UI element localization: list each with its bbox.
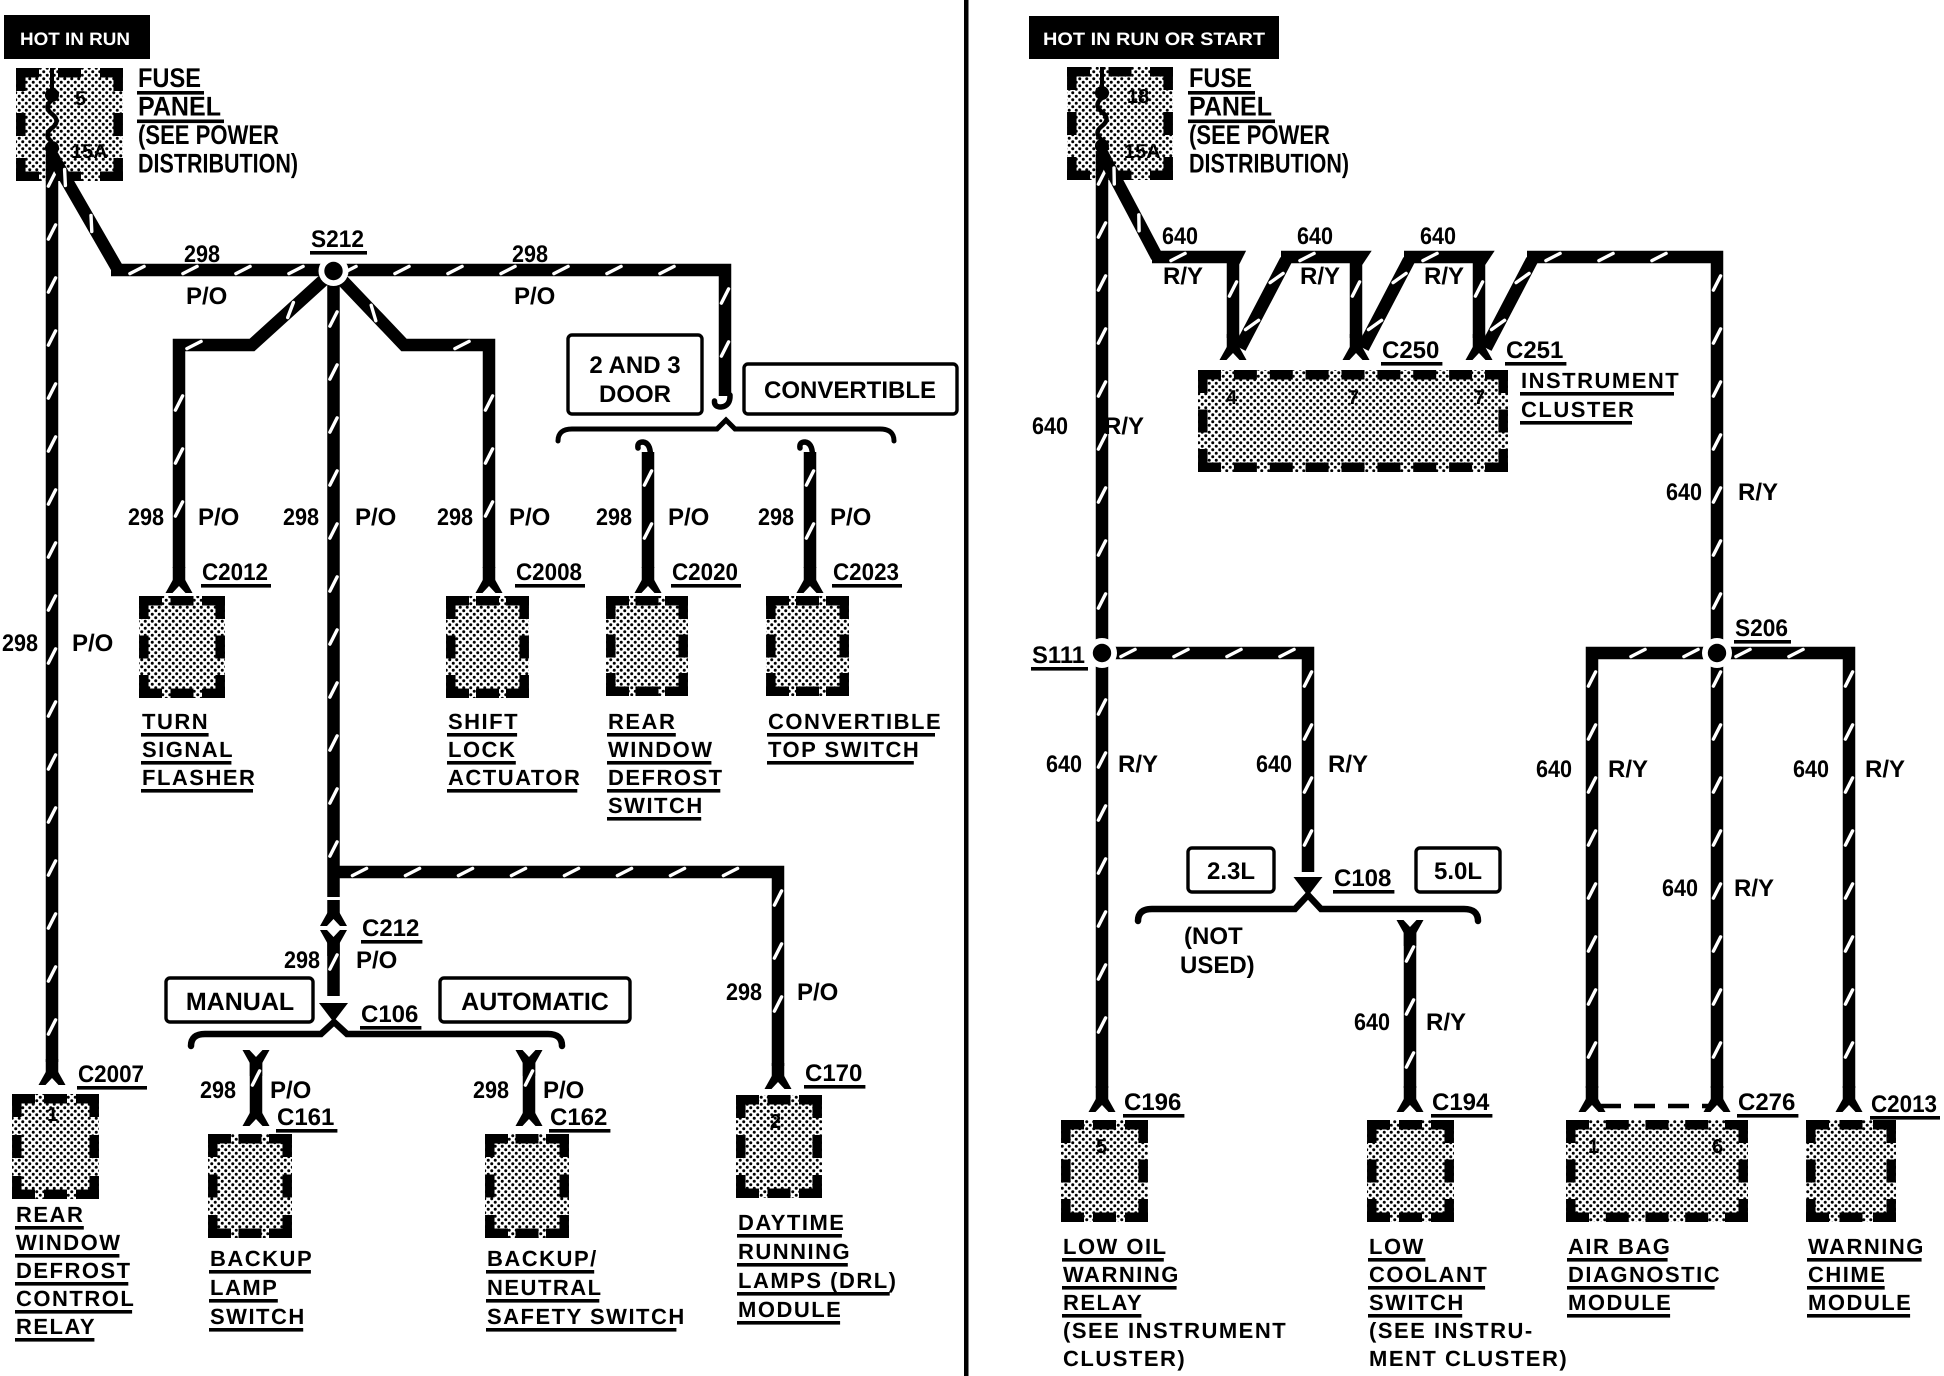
svg-text:640: 640 — [1793, 756, 1829, 783]
svg-text:15A: 15A — [1124, 141, 1161, 163]
fuse 5 15A symbol (left fuse panel) — [50, 68, 54, 90]
option box 2 AND 3 DOOR — [568, 335, 702, 414]
wire: fuse panel diagonal to horizontal 298 feed — [52, 155, 117, 268]
svg-text:R/Y: R/Y — [1426, 1009, 1466, 1036]
svg-text:R/Y: R/Y — [1424, 263, 1464, 290]
svg-text:R/Y: R/Y — [1738, 479, 1778, 506]
svg-text:R/Y: R/Y — [1328, 751, 1368, 778]
svg-text:MENT CLUSTER): MENT CLUSTER) — [1369, 1346, 1568, 1371]
svg-text:SWITCH: SWITCH — [1369, 1290, 1465, 1315]
svg-text:640: 640 — [1046, 751, 1082, 778]
svg-text:SHIFT: SHIFT — [448, 709, 519, 734]
connector C2007 — [46, 1059, 59, 1078]
wire: S212 branch to turn signal flasher C2012 — [179, 271, 334, 568]
svg-text:640: 640 — [1666, 479, 1702, 506]
svg-text:P/O: P/O — [356, 947, 397, 974]
svg-text:P/O: P/O — [186, 283, 227, 310]
connector C196 — [1096, 1086, 1109, 1105]
svg-text:640: 640 — [1662, 875, 1698, 902]
wire: fuse panel to rear window defrost control relay (298 P/O vertical) — [46, 153, 59, 1062]
svg-text:640: 640 — [1536, 756, 1572, 783]
svg-text:WINDOW: WINDOW — [608, 737, 714, 762]
wire: zigzag horizontal 2 to C250 pin 7 — [1281, 257, 1360, 338]
connector C2012 — [173, 567, 186, 586]
svg-text:P/O: P/O — [668, 504, 709, 531]
svg-text:R/Y: R/Y — [1300, 263, 1340, 290]
connector C2023 — [804, 567, 817, 586]
svg-text:P/O: P/O — [198, 504, 239, 531]
svg-text:PANEL: PANEL — [138, 92, 221, 122]
svg-text:P/O: P/O — [514, 283, 555, 310]
wire: right fuse panel vertical 640 R/Y down to C196 — [1096, 151, 1109, 1088]
svg-text:SWITCH: SWITCH — [608, 793, 704, 818]
svg-text:C276: C276 — [1738, 1089, 1795, 1116]
svg-text:TURN: TURN — [142, 709, 209, 734]
svg-text:640: 640 — [1420, 223, 1456, 250]
svg-text:CONVERTIBLE: CONVERTIBLE — [768, 709, 942, 734]
low coolant switch box — [1367, 1120, 1454, 1222]
svg-text:RUNNING: RUNNING — [738, 1239, 851, 1264]
backup/neutral safety switch box — [485, 1134, 569, 1238]
svg-text:298: 298 — [2, 630, 38, 657]
svg-text:C2023: C2023 — [833, 559, 899, 586]
connector C108 arrow — [1294, 877, 1323, 896]
dashed link between air bag connector forks — [1600, 1104, 1710, 1109]
svg-text:S212: S212 — [311, 226, 364, 253]
svg-text:C2012: C2012 — [202, 559, 268, 586]
svg-text:640: 640 — [1256, 751, 1292, 778]
svg-text:15A: 15A — [71, 141, 108, 163]
connector C170 — [772, 1063, 785, 1082]
svg-text:CONTROL: CONTROL — [16, 1286, 135, 1311]
svg-text:1: 1 — [47, 1104, 58, 1126]
svg-text:18: 18 — [1127, 86, 1149, 108]
svg-text:640: 640 — [1354, 1009, 1390, 1036]
svg-text:C196: C196 — [1124, 1089, 1181, 1116]
wire: S212 branch to shift lock actuator C2008 — [334, 271, 490, 568]
svg-text:298: 298 — [512, 241, 548, 268]
svg-text:MANUAL: MANUAL — [186, 988, 294, 1016]
air bag diagnostic module box — [1566, 1120, 1748, 1222]
connector C194 — [1404, 1086, 1417, 1105]
svg-text:2.3L: 2.3L — [1207, 858, 1255, 885]
svg-text:TOP SWITCH: TOP SWITCH — [768, 737, 920, 762]
svg-text:C108: C108 — [1334, 865, 1391, 892]
svg-text:7: 7 — [1348, 387, 1359, 409]
wire: zigzag diagonal up from C251 — [1486, 260, 1532, 348]
connector wire C161 (backup lamp switch) — [250, 1057, 263, 1076]
header HOT IN RUN — [4, 15, 150, 59]
daytime running lamps module box — [736, 1095, 822, 1198]
wire: S111 to C108 drop — [1102, 653, 1308, 872]
svg-text:640: 640 — [1032, 413, 1068, 440]
wire: S206 center continues down to C276 — [1711, 653, 1724, 1088]
wire: bracket to low coolant switch C194 — [1404, 927, 1417, 946]
svg-text:RELAY: RELAY — [1063, 1290, 1143, 1315]
svg-text:HOT IN RUN: HOT IN RUN — [20, 29, 130, 49]
wire: right fuse panel diagonal to zigzag feed — [1102, 153, 1157, 257]
svg-text:DOOR: DOOR — [599, 381, 671, 408]
svg-text:REAR: REAR — [608, 709, 676, 734]
svg-text:C162: C162 — [550, 1104, 607, 1131]
svg-text:MODULE: MODULE — [738, 1297, 842, 1322]
svg-text:C212: C212 — [362, 915, 419, 942]
wire: S206 right branch down to warning chime C2013 — [1717, 653, 1849, 1088]
svg-text:MODULE: MODULE — [1568, 1290, 1672, 1315]
svg-text:S206: S206 — [1735, 615, 1788, 642]
svg-text:(SEE INSTRUMENT: (SEE INSTRUMENT — [1063, 1318, 1287, 1343]
rear window defrost control relay box — [12, 1094, 99, 1199]
svg-text:7: 7 — [1474, 387, 1485, 409]
svg-text:C2020: C2020 — [672, 559, 738, 586]
svg-text:C250: C250 — [1382, 337, 1439, 364]
connector C106 arrow — [319, 1003, 348, 1022]
rear window defrost switch box — [606, 596, 688, 696]
svg-text:P/O: P/O — [797, 979, 838, 1006]
svg-text:CLUSTER: CLUSTER — [1521, 397, 1635, 422]
bracket C106 manual/automatic — [191, 1022, 562, 1046]
svg-text:C170: C170 — [805, 1060, 862, 1087]
option box CONVERTIBLE — [744, 364, 957, 414]
connector wire C162 (backup/neutral safety switch) — [523, 1057, 536, 1076]
svg-text:298: 298 — [128, 504, 164, 531]
svg-text:4: 4 — [1226, 387, 1238, 409]
svg-text:PANEL: PANEL — [1189, 92, 1272, 122]
svg-text:WINDOW: WINDOW — [16, 1230, 122, 1255]
svg-text:(NOT: (NOT — [1184, 923, 1243, 950]
connector forks into instrument cluster — [1227, 334, 1240, 353]
wire: bracket to convertible top switch C2023 — [800, 442, 813, 456]
page divider line — [964, 0, 969, 1376]
svg-text:WARNING: WARNING — [1063, 1262, 1180, 1287]
svg-text:REAR: REAR — [16, 1202, 84, 1227]
svg-text:298: 298 — [184, 241, 220, 268]
svg-text:R/Y: R/Y — [1163, 263, 1203, 290]
svg-text:R/Y: R/Y — [1104, 413, 1144, 440]
svg-text:P/O: P/O — [509, 504, 550, 531]
splice S206 — [1702, 638, 1732, 668]
svg-text:R/Y: R/Y — [1608, 756, 1648, 783]
connector C2008 — [483, 567, 496, 586]
svg-text:C194: C194 — [1432, 1089, 1490, 1116]
wire: 298 P/O horizontal feed to S212 and to 2/3-door+convertible branch — [111, 270, 725, 396]
svg-text:P/O: P/O — [830, 504, 871, 531]
connector C2020 — [642, 567, 655, 586]
svg-text:298: 298 — [473, 1077, 509, 1104]
svg-text:DEFROST: DEFROST — [608, 765, 724, 790]
option bracket for 2/3 door and convertible — [558, 420, 894, 441]
option box 5.0L — [1416, 848, 1500, 892]
svg-text:6: 6 — [1712, 1136, 1723, 1158]
svg-text:INSTRUMENT: INSTRUMENT — [1521, 368, 1680, 393]
fuse 18 15A symbol (right fuse panel) — [1100, 67, 1104, 88]
svg-text:C251: C251 — [1506, 337, 1563, 364]
svg-text:AIR BAG: AIR BAG — [1568, 1234, 1671, 1259]
option box 2.3L — [1188, 848, 1274, 892]
svg-text:DIAGNOSTIC: DIAGNOSTIC — [1568, 1262, 1721, 1287]
svg-text:LOW OIL: LOW OIL — [1063, 1234, 1168, 1259]
svg-text:R/Y: R/Y — [1734, 875, 1774, 902]
svg-text:298: 298 — [726, 979, 762, 1006]
connector C2013 — [1843, 1086, 1856, 1105]
svg-text:P/O: P/O — [72, 630, 113, 657]
svg-text:640: 640 — [1297, 223, 1333, 250]
svg-text:FUSE: FUSE — [1189, 63, 1252, 93]
svg-text:LOCK: LOCK — [448, 737, 516, 762]
svg-text:P/O: P/O — [543, 1077, 584, 1104]
svg-text:DEFROST: DEFROST — [16, 1258, 132, 1283]
low oil warning relay box — [1061, 1120, 1148, 1222]
svg-text:298: 298 — [758, 504, 794, 531]
svg-text:(SEE POWER: (SEE POWER — [1189, 120, 1330, 150]
svg-text:DISTRIBUTION): DISTRIBUTION) — [1189, 149, 1349, 179]
option box AUTOMATIC — [440, 978, 630, 1022]
svg-text:LAMPS (DRL): LAMPS (DRL) — [738, 1268, 897, 1293]
header HOT IN RUN OR START — [1029, 16, 1279, 59]
svg-text:298: 298 — [283, 504, 319, 531]
shift lock actuator box — [446, 596, 529, 698]
wire: zigzag diagonal up from pin 4 — [1240, 260, 1286, 348]
svg-text:FUSE: FUSE — [138, 63, 201, 93]
svg-text:298: 298 — [284, 947, 320, 974]
svg-text:LOW: LOW — [1369, 1234, 1425, 1259]
svg-text:P/O: P/O — [355, 504, 396, 531]
svg-text:COOLANT: COOLANT — [1369, 1262, 1488, 1287]
svg-text:SWITCH: SWITCH — [210, 1304, 306, 1329]
svg-text:MODULE: MODULE — [1808, 1290, 1912, 1315]
svg-text:(SEE INSTRU-: (SEE INSTRU- — [1369, 1318, 1534, 1343]
svg-text:HOT IN RUN OR START: HOT IN RUN OR START — [1043, 29, 1265, 49]
svg-text:5.0L: 5.0L — [1434, 858, 1482, 885]
svg-text:CHIME: CHIME — [1808, 1262, 1886, 1287]
svg-text:2: 2 — [770, 1111, 781, 1133]
connector C276 — [1711, 1086, 1724, 1105]
hook connector at end of feed wire into option bracket — [714, 395, 730, 407]
svg-text:(SEE POWER: (SEE POWER — [138, 120, 279, 150]
svg-text:C2013: C2013 — [1871, 1091, 1937, 1118]
svg-text:1: 1 — [1588, 1136, 1599, 1158]
backup lamp switch box — [208, 1134, 292, 1238]
svg-text:SIGNAL: SIGNAL — [142, 737, 234, 762]
svg-text:298: 298 — [596, 504, 632, 531]
svg-text:5: 5 — [75, 88, 86, 110]
svg-text:298: 298 — [200, 1077, 236, 1104]
wire: S206 left branch down to air bag pin 1 — [1592, 653, 1717, 1088]
wire: horizontal 4 to S206 drop — [1527, 257, 1717, 640]
svg-text:P/O: P/O — [270, 1077, 311, 1104]
svg-text:R/Y: R/Y — [1865, 756, 1905, 783]
svg-text:C2008: C2008 — [516, 559, 582, 586]
splice S212 — [319, 256, 349, 286]
svg-text:WARNING: WARNING — [1808, 1234, 1925, 1259]
svg-text:DISTRIBUTION): DISTRIBUTION) — [138, 149, 298, 179]
option box MANUAL — [166, 978, 313, 1022]
instrument cluster dashed box — [1198, 370, 1508, 472]
svg-text:ACTUATOR: ACTUATOR — [448, 765, 581, 790]
splice S111 — [1087, 638, 1117, 668]
wire: C212 to C106 — [327, 940, 340, 996]
wire: zigzag horizontal 3 to C251 pin 7 — [1404, 257, 1483, 338]
svg-text:LAMP: LAMP — [210, 1275, 278, 1300]
svg-text:640: 640 — [1162, 223, 1198, 250]
wire: zigzag diagonal up from C250 — [1363, 260, 1409, 348]
svg-text:298: 298 — [437, 504, 473, 531]
svg-text:DAYTIME: DAYTIME — [738, 1210, 845, 1235]
svg-text:S111: S111 — [1032, 642, 1085, 669]
svg-text:R/Y: R/Y — [1118, 751, 1158, 778]
wire: zigzag horizontal 1 to instrument cluster pin 4 — [1152, 257, 1236, 338]
fuse panel (left) dashed box — [16, 68, 123, 181]
svg-text:C2007: C2007 — [78, 1061, 144, 1088]
turn signal flasher box — [139, 596, 225, 698]
wire: S212 branch straight down to C212/C106 — [327, 271, 340, 897]
svg-text:BACKUP/: BACKUP/ — [487, 1246, 598, 1271]
svg-text:C106: C106 — [361, 1001, 418, 1028]
svg-text:AUTOMATIC: AUTOMATIC — [461, 988, 609, 1016]
svg-text:FLASHER: FLASHER — [142, 765, 256, 790]
svg-text:USED): USED) — [1180, 952, 1255, 979]
svg-text:NEUTRAL: NEUTRAL — [487, 1275, 603, 1300]
svg-text:2 AND 3: 2 AND 3 — [589, 352, 680, 379]
connector C212 mating forks — [327, 900, 340, 919]
svg-text:CLUSTER): CLUSTER) — [1063, 1346, 1186, 1371]
svg-text:CONVERTIBLE: CONVERTIBLE — [764, 377, 936, 404]
connector fork air bag pin 1 — [1586, 1086, 1599, 1105]
svg-text:C161: C161 — [277, 1104, 334, 1131]
wire: bracket to rear window defrost switch C2020 — [638, 442, 651, 456]
wire: branch to daytime running lamps module C170 — [334, 872, 779, 1066]
convertible top switch box — [766, 596, 849, 696]
warning chime module box — [1806, 1120, 1896, 1222]
svg-text:BACKUP: BACKUP — [210, 1246, 313, 1271]
svg-text:SAFETY SWITCH: SAFETY SWITCH — [487, 1304, 686, 1329]
right fuse panel dashed box — [1067, 67, 1173, 180]
svg-text:RELAY: RELAY — [16, 1314, 96, 1339]
bracket C108 2.3L/5.0L — [1138, 895, 1478, 921]
svg-text:5: 5 — [1096, 1136, 1107, 1158]
